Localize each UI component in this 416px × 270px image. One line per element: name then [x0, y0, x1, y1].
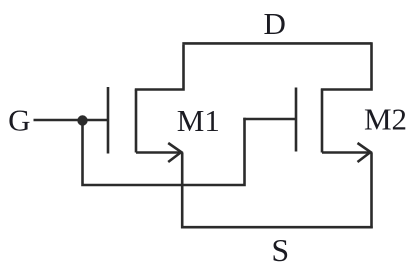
wire: M2 source lead (with arrow) — [322, 151, 372, 154]
svg-text:D: D — [264, 6, 286, 41]
wire: M2 source drop to S rail — [370, 153, 373, 229]
transistor M2 channel plate — [321, 89, 324, 153]
wire: M2 drain lead from D rail down to channel — [321, 42, 372, 89]
wire: M1 source lead (with arrow) — [136, 151, 182, 154]
svg-text:M1: M1 — [177, 103, 220, 138]
wire: M2 gate lead — [243, 118, 295, 121]
transistor M2 gate bar — [295, 88, 298, 152]
wire: drain rail (node D) — [182, 42, 371, 45]
arrowhead on M2 source — [358, 143, 371, 162]
wire: M1 source drop to S rail — [181, 153, 184, 229]
wire: source rail (node S) — [181, 226, 373, 229]
arrowhead on M1 source — [168, 143, 181, 162]
svg-text:G: G — [8, 102, 30, 137]
transistor M1 channel plate — [135, 90, 138, 153]
wire: gate routing from node down, across, and up to M2 gate — [83, 118, 245, 185]
junction node dot on gate wire — [77, 115, 87, 125]
wire: gate lead from G to M1 gate — [34, 119, 108, 122]
wire: M1 drain lead up to D rail — [135, 45, 184, 90]
svg-text:S: S — [271, 232, 289, 268]
transistor M1 gate bar — [107, 87, 110, 154]
svg-text:M2: M2 — [364, 102, 407, 137]
